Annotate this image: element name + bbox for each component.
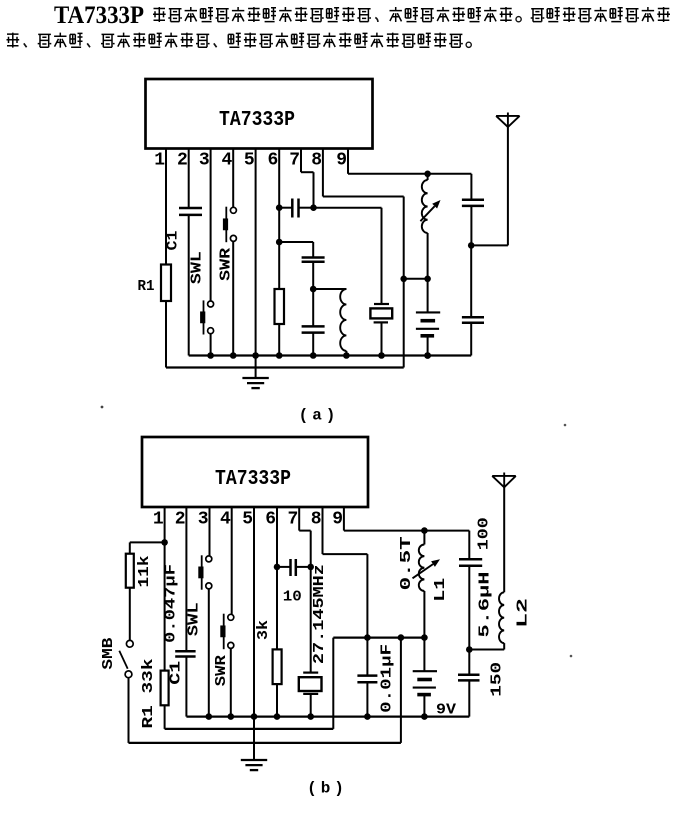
capacitor 150 (b) [458, 674, 480, 677]
switch SMB (b) [126, 640, 133, 647]
resistor 11k (b) [126, 554, 134, 588]
svg-text:1: 1 [154, 151, 165, 171]
svg-text:SWL: SWL [189, 251, 205, 284]
lower supply rail (a) [166, 366, 404, 368]
svg-text:0.01μF: 0.01μF [379, 644, 395, 713]
wire pin8 jog (a) [322, 149, 324, 197]
svg-text:10: 10 [283, 589, 302, 606]
wire pin6 (b) [276, 507, 278, 649]
capacitor mid lower (a) [302, 325, 325, 328]
lower capacitor right branch (a) [470, 245, 472, 317]
battery 9V (b) [421, 634, 428, 641]
wire pin8 jog (b) [322, 507, 324, 554]
ground symbol (a) [242, 377, 268, 379]
svg-text:(a): (a) [299, 407, 340, 425]
resistor R1 (a) [161, 265, 171, 302]
wire pin4 (b) [231, 507, 233, 614]
wire pin1 (b) [164, 507, 166, 671]
variable inductor L1 0.5T (b) [423, 531, 425, 545]
svg-text:3: 3 [199, 151, 210, 171]
wire pin3 (b) [209, 507, 211, 556]
branch to 11k [130, 541, 165, 543]
wire pin1 (a) [165, 149, 167, 265]
capacitor 10 (b) [277, 566, 291, 568]
wire pin7 jog (b) [298, 507, 300, 531]
svg-text:L1: L1 [433, 577, 449, 601]
svg-text:6: 6 [265, 510, 276, 530]
op-amp U1: IC TA7333P (a) [146, 79, 373, 149]
capacitor C1 0.047uF (b) [175, 650, 195, 653]
svg-text:C1: C1 [166, 230, 182, 250]
capacitor pin6-pin7 (a) [281, 207, 292, 209]
antenna (b) [492, 475, 516, 477]
capacitor mid upper (a) [302, 256, 325, 259]
wire pin1 to lower rail [165, 301, 167, 368]
wire pin3 (a) [210, 149, 212, 301]
svg-text:4: 4 [220, 510, 231, 530]
trimmer arrow (a) [420, 206, 434, 221]
svg-text:SWR: SWR [214, 655, 230, 686]
svg-text:9: 9 [332, 510, 343, 530]
wire pin6 lower node to caps (a) [279, 241, 313, 243]
capacitor 0.01uF (b) [366, 638, 368, 676]
svg-text:0.5T: 0.5T [399, 536, 415, 590]
svg-text:2: 2 [177, 151, 188, 171]
wire node pin7 to crystal (a) [314, 207, 382, 209]
svg-text:6: 6 [267, 151, 278, 171]
antenna (a) [496, 115, 519, 117]
svg-text:L2: L2 [516, 598, 532, 628]
svg-text:8: 8 [311, 510, 322, 530]
resistor on pin6 (a) [275, 289, 285, 324]
svg-text:9: 9 [336, 151, 347, 171]
wire to inductor (a) [313, 288, 346, 290]
svg-text:5: 5 [242, 510, 253, 530]
svg-text:(b): (b) [307, 780, 348, 798]
rail from R1 (b) [165, 728, 334, 730]
crystal resonator (a) [374, 303, 389, 305]
wire antenna feed (a) [471, 244, 508, 246]
svg-text:TA7333P: TA7333P [219, 108, 295, 132]
wire pin7 jog (a) [300, 149, 302, 173]
switch SWL (a) [208, 301, 214, 307]
ground rail (b) [186, 715, 469, 717]
switch SWR (b) [228, 614, 234, 620]
IC TA7333P (b) [142, 437, 368, 507]
inductor L2 5.6uH (b) [469, 649, 504, 651]
variable inductor (a) [427, 174, 429, 180]
svg-text:9V: 9V [436, 702, 456, 719]
svg-text:TA7333P: TA7333P [215, 467, 291, 491]
ground symbol (b) [241, 759, 267, 761]
capacitor 100 (b) [468, 531, 470, 560]
svg-text:TA7333P: TA7333P [54, 2, 144, 29]
svg-text:7: 7 [289, 151, 300, 171]
resistor 3k (b) [273, 649, 282, 684]
svg-text:1: 1 [153, 510, 164, 530]
svg-text:R1 33k: R1 33k [141, 658, 157, 728]
svg-text:3: 3 [198, 510, 209, 530]
svg-text:SWL: SWL [187, 602, 203, 636]
svg-text:7: 7 [287, 510, 298, 530]
svg-text:3k: 3k [256, 620, 272, 640]
wire pin5 to ground (b) [253, 507, 255, 760]
wire pin4 (a) [232, 149, 234, 208]
svg-text:5: 5 [244, 151, 255, 171]
svg-text:27.145MHz: 27.145MHz [312, 564, 328, 664]
wire pin9 jog (b) [343, 507, 345, 531]
supply line (b) [333, 636, 424, 638]
wire pin6 (a) [278, 149, 280, 290]
wire supply node to battery (a) [404, 278, 428, 280]
battery (a) [427, 279, 429, 313]
svg-text:11k: 11k [137, 555, 153, 587]
resistor R1 33k (b) [161, 671, 169, 706]
svg-text:2: 2 [175, 510, 186, 530]
wire pin2 (b) [185, 507, 187, 651]
svg-text:C1: C1 [169, 660, 185, 684]
rail from SMB (b) [129, 742, 401, 744]
coupling capacitor top right (a) [470, 174, 472, 200]
crystal 27.145MHz (b) [303, 671, 318, 673]
switch SWL (b) [206, 556, 212, 562]
wire pin2 (a) [188, 149, 190, 209]
svg-text:4: 4 [221, 151, 232, 171]
svg-text:5.6μH: 5.6μH [478, 572, 494, 638]
capacitor C1 (a) [179, 207, 202, 210]
svg-text:150: 150 [490, 662, 506, 697]
wire pin9 jog (a) [347, 149, 349, 174]
switch SWR (a) [230, 207, 236, 213]
svg-text:R1: R1 [138, 278, 155, 295]
svg-text:SMB: SMB [101, 637, 117, 669]
wire pin5 to ground (a) [255, 149, 257, 379]
svg-text:8: 8 [311, 151, 322, 171]
svg-text:100: 100 [476, 517, 492, 550]
ground rail (a) [189, 354, 472, 356]
svg-text:0.047μF: 0.047μF [164, 564, 180, 643]
inductor coil (a) [340, 289, 346, 351]
